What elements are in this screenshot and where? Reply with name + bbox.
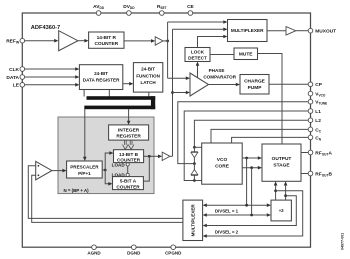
svg-text:5-BIT A: 5-BIT A bbox=[120, 179, 137, 184]
pin RSET bbox=[160, 11, 165, 16]
phase comparator triangle bbox=[190, 73, 209, 96]
pin CLK bbox=[20, 67, 25, 72]
pin RFOUTA bbox=[308, 150, 313, 155]
svg-text:LOAD: LOAD bbox=[112, 162, 126, 167]
charge pump box bbox=[240, 75, 269, 95]
svg-text:DIVSEL = 2: DIVSEL = 2 bbox=[215, 230, 239, 235]
wire node down to A counter bbox=[105, 170, 109, 184]
24-bit function latch bbox=[133, 63, 162, 93]
svg-text:CORE: CORE bbox=[215, 164, 230, 170]
svg-text:N = (BP + A): N = (BP + A) bbox=[64, 188, 90, 193]
wire LE to data register bbox=[25, 84, 76, 86]
wire output stage to RFOUTB bbox=[301, 173, 311, 175]
pin MUXOUT bbox=[308, 28, 313, 33]
varactor node mid bbox=[193, 162, 196, 165]
svg-text:RFOUTA: RFOUTA bbox=[315, 150, 332, 156]
svg-text:AGND: AGND bbox=[87, 251, 101, 256]
svg-text:÷2: ÷2 bbox=[279, 208, 284, 213]
node B out bbox=[148, 155, 151, 158]
svg-text:AVDD: AVDD bbox=[93, 4, 105, 10]
svg-text:CC: CC bbox=[315, 127, 321, 133]
svg-text:DETECT: DETECT bbox=[188, 55, 207, 60]
pin RFOUTB bbox=[308, 171, 313, 176]
wire buffer to R counter bbox=[78, 40, 85, 42]
wire CC to VCO core bbox=[211, 129, 308, 143]
svg-text:FUNCTION: FUNCTION bbox=[136, 73, 160, 78]
wire CN to VCO core bbox=[232, 137, 309, 143]
svg-text:MULTIPLEXER: MULTIPLEXER bbox=[231, 28, 264, 33]
pin VTUNE bbox=[308, 99, 313, 104]
wire mute to output stage bbox=[258, 54, 283, 145]
wire R counter to R buffer bbox=[124, 40, 152, 42]
pin AVDD bbox=[96, 11, 101, 16]
svg-text:VTUNE: VTUNE bbox=[315, 100, 327, 106]
wire VTUNE to varactor mid bbox=[178, 102, 308, 164]
load circle 1 bbox=[126, 163, 129, 166]
wire data register to function latch bbox=[123, 83, 130, 85]
node VCO out 2 bbox=[250, 166, 253, 169]
feedback buffer bbox=[36, 161, 52, 179]
wire feedback pair line 2 bbox=[32, 175, 183, 222]
wire div2 up 2 to output stage bbox=[285, 186, 287, 201]
varactor D1 bbox=[193, 147, 195, 152]
svg-text:MULTIPLEXER: MULTIPLEXER bbox=[191, 204, 196, 237]
bus upper thick bar bbox=[87, 96, 156, 100]
svg-text:DATA: DATA bbox=[6, 75, 19, 81]
svg-text:MUXOUT: MUXOUT bbox=[315, 29, 336, 35]
divide by 2 box bbox=[271, 200, 291, 221]
wire VCO to output stage 2 bbox=[242, 167, 258, 169]
wire divsel1 line 1 bbox=[206, 204, 268, 206]
wire bus to prescaler bbox=[84, 109, 86, 158]
N divider gray block bbox=[58, 117, 154, 194]
wire R buffer to node bbox=[163, 40, 168, 42]
pin L1 bbox=[308, 109, 313, 114]
svg-text:COUNTER: COUNTER bbox=[116, 184, 140, 189]
wire tap B loop to multiplexer input 3 bbox=[206, 196, 296, 226]
pin DVDD bbox=[127, 11, 132, 16]
wire R node to phase comparator input 1 bbox=[168, 77, 187, 79]
multiplexer vertical box bbox=[183, 200, 203, 240]
pin REFIN bbox=[20, 38, 25, 43]
wire divsel1 line 2 bbox=[206, 214, 268, 216]
wire B counter out bbox=[144, 155, 159, 157]
pin LE bbox=[20, 83, 25, 88]
varactor node bottom bbox=[193, 179, 196, 182]
svg-text:LATCH: LATCH bbox=[140, 80, 156, 85]
node divsel1 line1 bbox=[245, 204, 248, 207]
wire node up to B counter bbox=[105, 153, 110, 170]
wire VCO out 1 down bbox=[246, 158, 248, 205]
muxout buffer bbox=[286, 27, 296, 35]
wire phase comparator to lock detect bbox=[197, 65, 199, 78]
wire DATA to data register bbox=[25, 76, 76, 78]
svg-text:COMPARATOR: COMPARATOR bbox=[203, 74, 236, 79]
svg-text:CLK: CLK bbox=[9, 67, 19, 73]
pin VVCO bbox=[308, 91, 313, 96]
node R bbox=[166, 40, 169, 43]
svg-text:24-BIT: 24-BIT bbox=[94, 71, 108, 76]
bus riser thick bbox=[151, 96, 155, 109]
svg-text:STAGE: STAGE bbox=[273, 163, 290, 169]
pin DGND bbox=[132, 245, 137, 250]
svg-text:VVCO: VVCO bbox=[315, 92, 326, 98]
svg-text:04977-001: 04977-001 bbox=[341, 233, 345, 250]
svg-text:ADF4360-7: ADF4360-7 bbox=[31, 25, 60, 31]
load wire bbox=[127, 166, 129, 173]
wire bus to integer register bbox=[128, 109, 130, 121]
wire N to phase comparator input 2 bbox=[173, 92, 187, 94]
wire prescaler to node bbox=[102, 169, 105, 171]
wire lock detect to multiplexer input 3 bbox=[198, 37, 225, 48]
multiplexer top box bbox=[228, 20, 268, 42]
svg-text:LOCK: LOCK bbox=[191, 50, 205, 55]
wire feedback pair line 1 bbox=[28, 166, 183, 219]
wire N to multiplexer input 2 bbox=[173, 28, 225, 30]
wire VCO to output stage 1 bbox=[242, 157, 258, 159]
svg-text:REFIN: REFIN bbox=[6, 39, 19, 45]
prescaler bbox=[67, 161, 103, 178]
svg-text:P/P+1: P/P+1 bbox=[78, 171, 91, 176]
svg-text:LE: LE bbox=[13, 83, 20, 89]
N divider buffer bbox=[162, 152, 170, 160]
wire N vertical bbox=[172, 29, 174, 156]
lock detect box bbox=[185, 48, 210, 62]
wire varactor bottom to VCO bbox=[194, 180, 201, 182]
wire L2 to varactor top bbox=[194, 120, 308, 146]
pin CPGND bbox=[171, 245, 176, 250]
wire muxout buffer to pin bbox=[296, 30, 311, 32]
pin CE bbox=[188, 11, 193, 16]
chip border bbox=[22, 13, 310, 247]
integer register bbox=[109, 125, 149, 140]
wire data register drop 1 to bus bbox=[83, 90, 85, 97]
node N phase comparator tap bbox=[171, 91, 174, 94]
hollow arrow 2 integer register to B counter bbox=[128, 140, 134, 149]
wire N buffer to N vertical bbox=[170, 155, 173, 157]
wire R node to multiplexer input 1 bbox=[168, 21, 225, 23]
svg-text:COUNTER: COUNTER bbox=[94, 41, 118, 47]
svg-text:DVDD: DVDD bbox=[123, 4, 135, 10]
svg-text:RFOUTB: RFOUTB bbox=[315, 171, 332, 177]
pin DATA bbox=[20, 75, 25, 80]
VCO core box bbox=[202, 143, 243, 184]
svg-text:CN: CN bbox=[315, 135, 321, 141]
svg-text:CPGND: CPGND bbox=[165, 251, 182, 256]
wire R node vertical bbox=[167, 22, 169, 78]
pin AGND bbox=[92, 245, 97, 250]
wire data register drop 2 to bus bbox=[108, 90, 110, 97]
mute box bbox=[234, 48, 258, 60]
wire tap A loop to multiplexer input 4 bbox=[206, 191, 303, 236]
varactor node top bbox=[193, 146, 196, 149]
5-bit A counter bbox=[113, 177, 144, 190]
14-bit R counter bbox=[89, 32, 124, 48]
wire phase comparator to charge pump bbox=[209, 84, 237, 86]
wire VCO out 2 down bbox=[251, 168, 253, 215]
svg-text:24-BIT: 24-BIT bbox=[141, 67, 155, 72]
bus lower thick bar bbox=[84, 106, 155, 110]
pin L2 bbox=[308, 118, 313, 123]
svg-text:OUTPUT: OUTPUT bbox=[272, 156, 292, 162]
load circle 2 bbox=[126, 173, 129, 176]
varactor D2 bbox=[193, 164, 195, 170]
svg-text:REGISTER: REGISTER bbox=[116, 134, 141, 140]
svg-text:L2: L2 bbox=[315, 118, 321, 124]
svg-text:PUMP: PUMP bbox=[248, 85, 263, 91]
wire A counter out up to node bbox=[143, 156, 149, 181]
13-bit B counter bbox=[114, 150, 144, 163]
wire charge pump to CP pin bbox=[269, 83, 311, 85]
node prescaler out bbox=[104, 169, 107, 172]
wire function latch drop to bus bbox=[148, 92, 150, 96]
svg-text:PHASE: PHASE bbox=[209, 68, 225, 73]
hollow arrow 1 integer register to B counter bbox=[123, 140, 129, 149]
output stage box bbox=[262, 144, 301, 181]
wire REFIN to input buffer bbox=[25, 40, 55, 42]
wire output stage to RFOUTA bbox=[301, 152, 311, 154]
svg-text:MUTE: MUTE bbox=[239, 52, 253, 58]
wire CLK to data register bbox=[25, 68, 76, 70]
pin CP bbox=[308, 82, 313, 87]
wire L1 to varactor bottom bbox=[184, 111, 308, 181]
24-bit data register bbox=[79, 65, 122, 90]
svg-text:CE: CE bbox=[187, 4, 194, 10]
wire multiplexer to muxout buffer bbox=[267, 30, 286, 32]
R path buffer bbox=[155, 37, 163, 45]
node divsel1 line2 bbox=[250, 214, 253, 217]
pin CN bbox=[308, 135, 313, 140]
node div2 tap A bbox=[274, 189, 277, 192]
svg-text:13-BIT B: 13-BIT B bbox=[119, 152, 139, 157]
svg-text:RSET: RSET bbox=[157, 4, 167, 10]
svg-text:CHARGE: CHARGE bbox=[244, 79, 266, 85]
wire varactor top to VCO bbox=[194, 146, 201, 148]
op-amp reference buffer bbox=[59, 31, 78, 51]
svg-text:CP: CP bbox=[315, 82, 322, 88]
node VCO out 1 bbox=[245, 157, 248, 160]
svg-text:VCO: VCO bbox=[217, 157, 228, 163]
svg-text:DIVSEL = 1: DIVSEL = 1 bbox=[215, 208, 239, 213]
wire feedback buffer to prescaler bbox=[52, 170, 63, 172]
svg-text:DGND: DGND bbox=[127, 251, 141, 256]
node div2 tap B bbox=[284, 194, 287, 197]
svg-text:DATA REGISTER: DATA REGISTER bbox=[83, 78, 120, 83]
svg-text:PRESCALER: PRESCALER bbox=[70, 164, 99, 169]
pin CC bbox=[308, 127, 313, 132]
wire lock detect to mute bbox=[210, 54, 234, 56]
svg-text:INTEGER: INTEGER bbox=[118, 128, 140, 134]
svg-text:14-BIT R: 14-BIT R bbox=[97, 35, 117, 41]
svg-text:L1: L1 bbox=[315, 109, 321, 115]
wire div2 up 1 to output stage bbox=[275, 186, 277, 201]
